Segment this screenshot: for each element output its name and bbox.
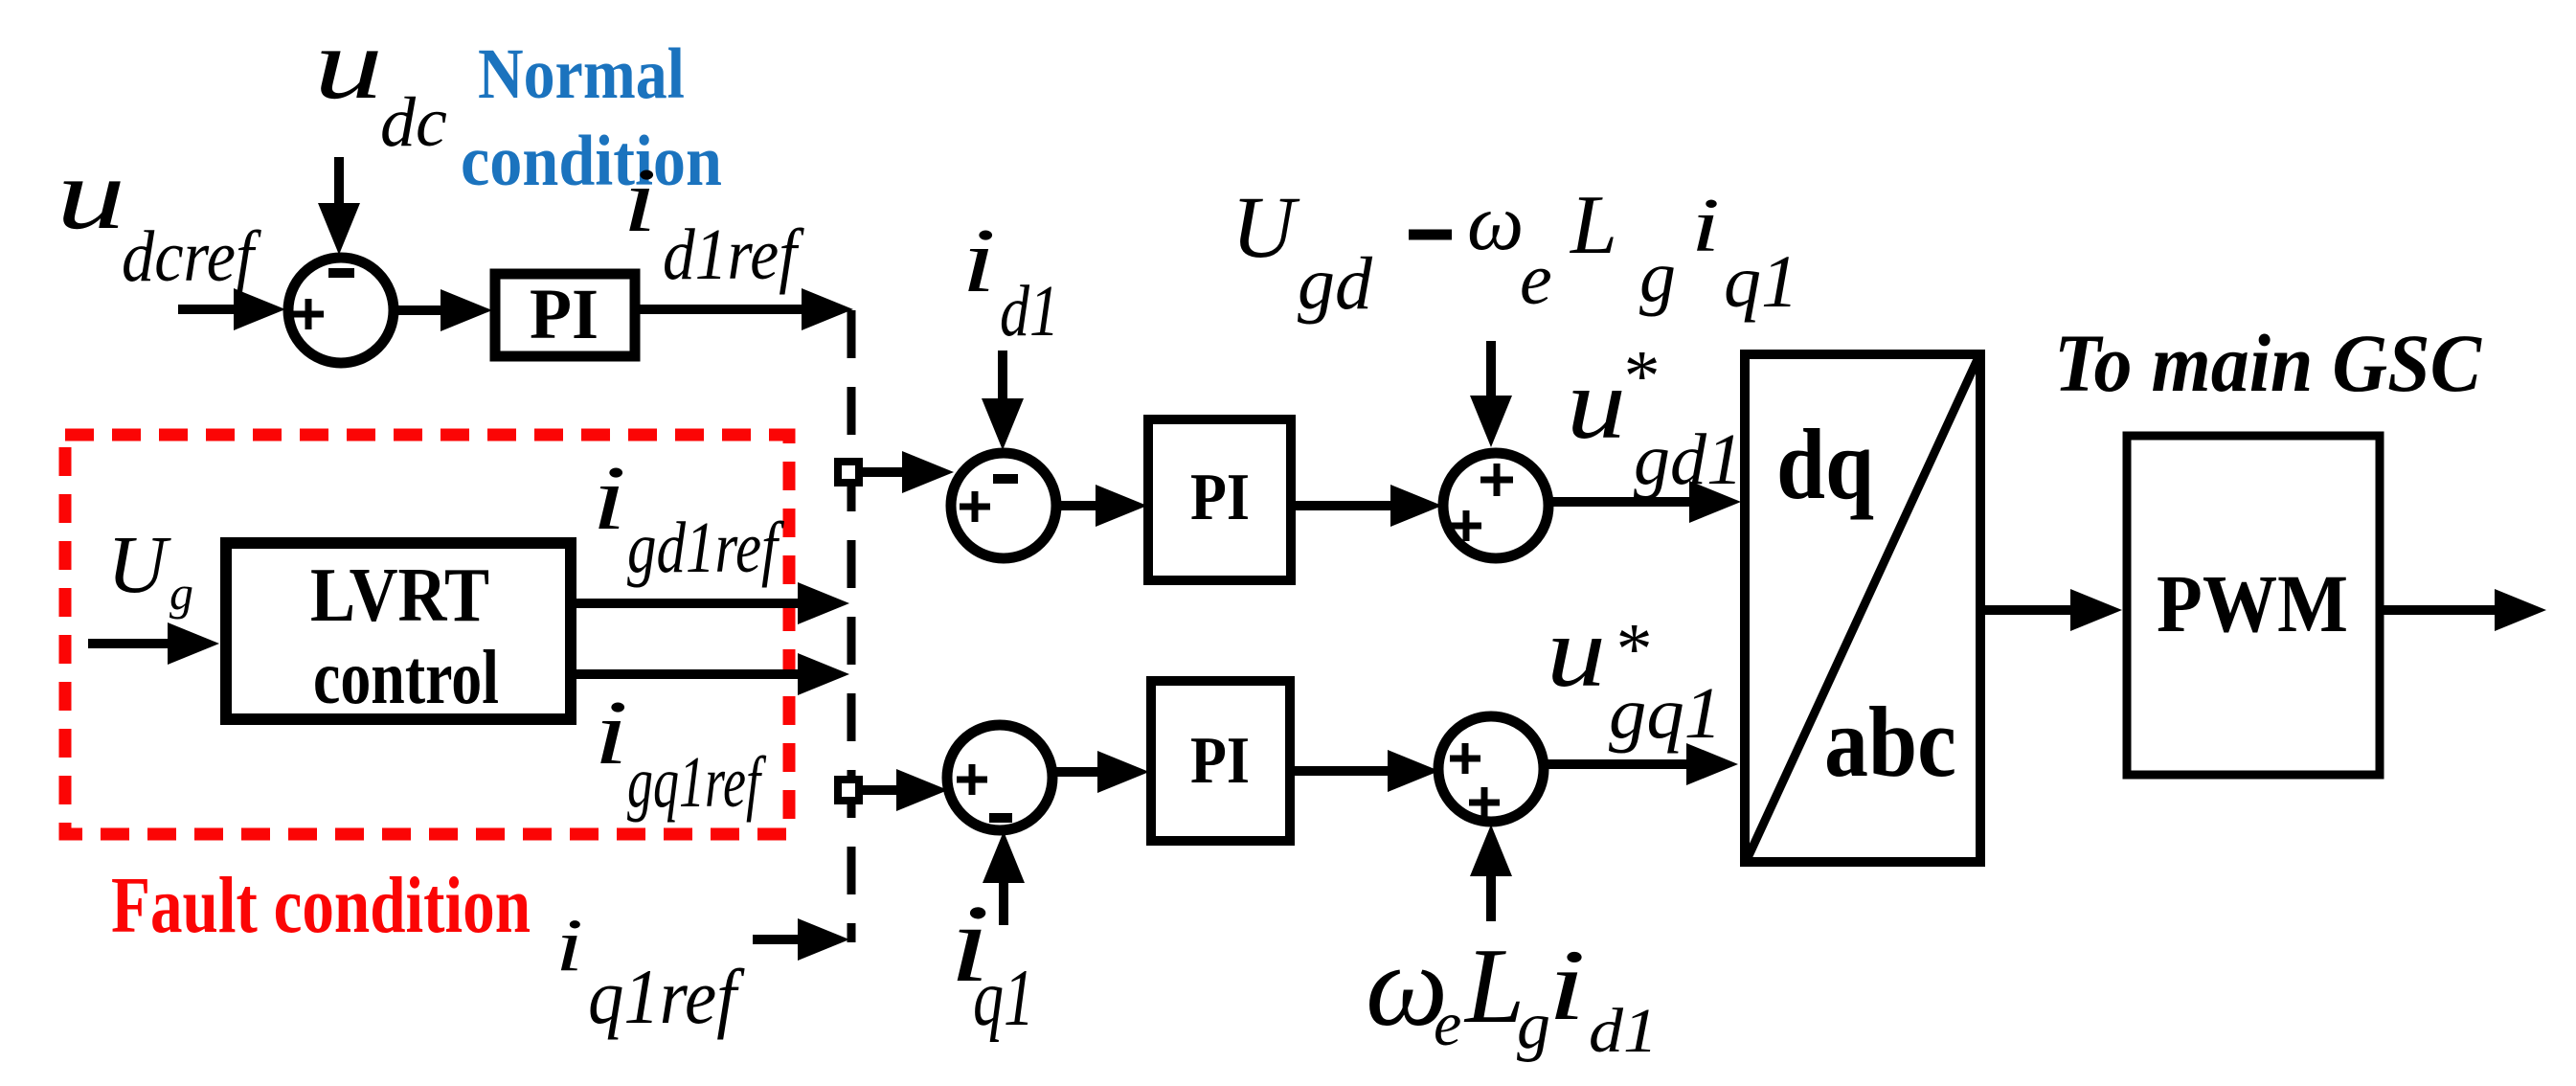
- wire PI1 to switch (i_d1ref): [640, 288, 853, 330]
- svg-text:u: u: [56, 138, 125, 250]
- wire u_dc down arrow: [318, 157, 360, 255]
- label u_dcref: [56, 138, 261, 297]
- svg-text:PWM: PWM: [2157, 557, 2348, 649]
- svg-text:i: i: [961, 209, 996, 311]
- svg-text:g: g: [1639, 237, 1676, 317]
- wire LVRT output i_gq1ref: [576, 653, 849, 695]
- wire S2 to sum4: [863, 769, 948, 811]
- wire i_q1 up arrow: [983, 831, 1025, 925]
- wire Ug into LVRT: [88, 622, 219, 665]
- summing junction sum4: [947, 725, 1052, 830]
- summing junction sum1: [288, 258, 394, 363]
- svg-text:gq1: gq1: [1609, 673, 1722, 754]
- svg-text:ω: ω: [1467, 178, 1524, 267]
- wire sum1 to PI1: [395, 289, 492, 331]
- label To main GSC: [2054, 317, 2483, 409]
- svg-text:q1ref: q1ref: [588, 953, 745, 1040]
- svg-text:L: L: [1569, 179, 1617, 272]
- svg-text:gd1ref: gd1ref: [627, 508, 784, 588]
- dq/abc transform block: [1745, 354, 1980, 862]
- label i_gd1ref: [592, 446, 784, 588]
- svg-text:i: i: [592, 446, 626, 549]
- svg-text:PI: PI: [530, 275, 599, 354]
- svg-text:*: *: [1620, 336, 1657, 417]
- wire i_d1 down arrow: [982, 351, 1024, 450]
- svg-text:PI: PI: [1190, 461, 1250, 534]
- PI block PI2: [1148, 419, 1291, 580]
- switch selector dashed line: [847, 310, 856, 942]
- svg-text:abc: abc: [1824, 686, 1956, 798]
- LVRT control block: [226, 543, 571, 720]
- label i_d1: [961, 209, 1059, 351]
- label i_gq1ref: [594, 681, 766, 823]
- svg-text:dq: dq: [1776, 408, 1874, 520]
- svg-text:d1: d1: [1000, 271, 1059, 351]
- svg-text:To main GSC: To main GSC: [2054, 317, 2483, 409]
- svg-text:d1: d1: [1589, 996, 1658, 1066]
- svg-text:e: e: [1520, 239, 1552, 320]
- svg-text:u: u: [314, 8, 383, 120]
- summing junction sum2: [951, 453, 1056, 558]
- svg-text:Fault condition: Fault condition: [111, 861, 531, 950]
- fault-condition dashed red box: [65, 435, 789, 834]
- svg-text:g: g: [169, 566, 193, 620]
- wire u_dcref input arrow: [178, 288, 285, 330]
- wire PWM output: [2384, 589, 2546, 631]
- wire sum5 to dq box (u*gq1): [1547, 743, 1738, 785]
- svg-text:gd1: gd1: [1634, 419, 1743, 500]
- svg-text:gd: gd: [1298, 241, 1373, 325]
- svg-text:i: i: [555, 903, 583, 986]
- wire PI2 to sum3: [1296, 485, 1442, 527]
- label weLgid1: [1366, 921, 1658, 1066]
- svg-text:LVRT: LVRT: [310, 554, 489, 638]
- label i_d1ref: [622, 148, 804, 295]
- svg-text:i: i: [622, 148, 657, 251]
- wire feedforward up arrow into sum5: [1470, 825, 1512, 921]
- svg-text:q1: q1: [973, 953, 1034, 1043]
- wire dq box to PWM: [1985, 589, 2122, 631]
- svg-text:u: u: [1567, 348, 1626, 460]
- svg-text:i: i: [1691, 184, 1720, 268]
- label Normal condition: [461, 34, 722, 201]
- svg-text:PI: PI: [1190, 724, 1250, 798]
- summing junction sum5: [1438, 716, 1544, 822]
- label i_q1ref: [555, 903, 745, 1040]
- summing junction sum3: [1443, 453, 1548, 558]
- wire LVRT output i_gd1ref: [576, 582, 849, 624]
- node square S2: [838, 780, 859, 801]
- PI block PI1: [495, 274, 635, 356]
- svg-text:i: i: [594, 681, 628, 783]
- svg-text:dcref: dcref: [122, 216, 261, 297]
- wire PI3 to sum5: [1295, 750, 1439, 792]
- svg-text:e: e: [1434, 989, 1461, 1059]
- wire feedforward down arrow into sum3: [1470, 341, 1512, 447]
- label u_dc: [314, 8, 447, 162]
- label u*_gd1: [1567, 336, 1743, 500]
- svg-text:g: g: [1517, 989, 1550, 1063]
- wire S1 to sum2: [863, 451, 954, 493]
- wire sum2 to PI2: [1058, 485, 1147, 527]
- svg-text:dc: dc: [380, 83, 447, 162]
- svg-text:i: i: [1548, 929, 1586, 1041]
- svg-text:u: u: [1547, 596, 1606, 708]
- wire i_q1ref to switch: [753, 918, 849, 961]
- svg-text:L: L: [1463, 927, 1525, 1046]
- label U_g: [107, 518, 193, 620]
- label formula Ugd - weLgiq1: [1232, 178, 1798, 325]
- svg-text:gq1ref: gq1ref: [627, 742, 766, 823]
- svg-text:condition: condition: [461, 122, 722, 201]
- label i_q1: [949, 883, 1034, 1043]
- svg-text:U: U: [1232, 178, 1300, 276]
- svg-text:Normal: Normal: [478, 34, 685, 114]
- svg-text:U: U: [107, 518, 171, 610]
- wire sum4 to PI3: [1054, 751, 1149, 793]
- label u*_gq1: [1547, 596, 1722, 754]
- PI block PI3: [1151, 681, 1290, 841]
- label Fault condition: [111, 861, 531, 950]
- wire sum3 to dq box (u*gd1): [1550, 481, 1741, 523]
- svg-text:control: control: [313, 636, 499, 720]
- svg-text:q1: q1: [1724, 239, 1798, 323]
- node square S1: [838, 462, 859, 483]
- PWM block: [2127, 436, 2380, 775]
- svg-text:d1ref: d1ref: [663, 215, 804, 295]
